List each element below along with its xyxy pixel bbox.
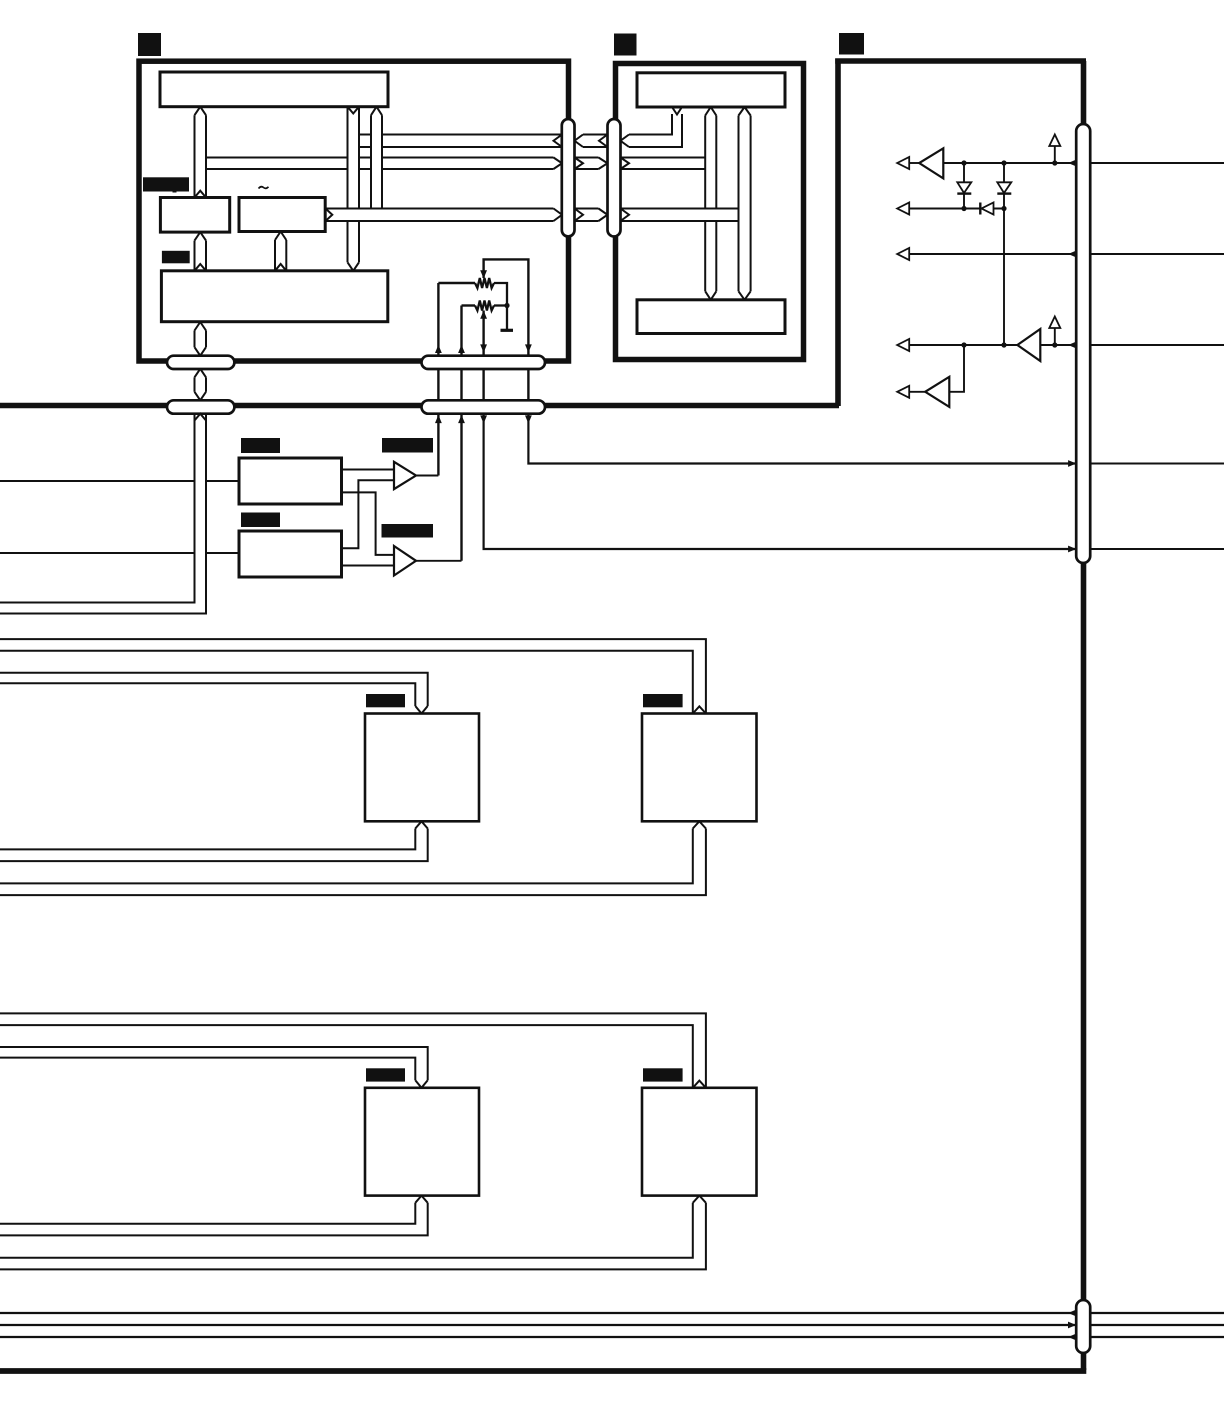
- register block 1: [160, 198, 229, 233]
- resistor R2 left lead and drop: [462, 304, 476, 306]
- wire w2: [909, 208, 1004, 210]
- label M3: [366, 1068, 405, 1081]
- arrow into circuit w3: [1068, 251, 1076, 258]
- label M4: [643, 1068, 683, 1081]
- ROM block rectangle: [161, 271, 387, 322]
- converter B output 2: [342, 565, 395, 567]
- buffer B triangle: [394, 546, 416, 576]
- arrow up into pill D line2: [458, 415, 465, 423]
- connector pill B: [422, 356, 546, 369]
- buffer U3 stub: [909, 391, 925, 393]
- inverter U1 input open arrow: [897, 157, 909, 169]
- group bus out pair 2 group2: [0, 1203, 706, 1270]
- board connector pill S: [1076, 1300, 1090, 1353]
- diode D3 bar: [979, 203, 981, 215]
- wire B segment between pills: [575, 158, 599, 170]
- arrow bottom line2: [1068, 1322, 1076, 1329]
- label above converter B: [241, 513, 280, 528]
- group bus in pair 1 group1: [0, 639, 706, 713]
- dot w1 power: [1052, 160, 1057, 165]
- converter A output 1: [342, 469, 395, 471]
- arrow into pill w6: [1068, 546, 1076, 553]
- IC1 pin label tab: [143, 177, 189, 191]
- bottom bus line 1: [0, 1312, 1224, 1314]
- bus B3 vertical (bus C to CPU): [371, 107, 382, 209]
- power arrow 1: [1049, 135, 1060, 147]
- control bus wire C from decoder: [326, 209, 554, 222]
- wire bus from RAM block down-left exit (lower-left board bus): [0, 414, 206, 614]
- diode D1 bar: [957, 192, 971, 194]
- wire w2 open arrow: [897, 203, 909, 215]
- bus B1 CPU to reg vertical arrow: [195, 107, 207, 198]
- IC2 top block rectangle: [637, 73, 785, 107]
- IC1 pin label comma mark: [173, 188, 177, 193]
- arrow down below pill D line4: [525, 415, 532, 423]
- arrow down below pill D line3: [480, 415, 487, 423]
- data bus wire B horizontal (to connector): [207, 158, 554, 170]
- bus B7 segment between connector pills: [195, 369, 207, 401]
- arrow up above pill B line2: [458, 345, 465, 353]
- line from buffer A output up to resistor R1: [437, 356, 439, 476]
- arrow down into pill B line4: [525, 344, 532, 352]
- power arrow 2: [1049, 317, 1060, 329]
- inverter U1 stub: [909, 162, 919, 164]
- label above buffer B: [382, 524, 434, 538]
- section tab A: [138, 33, 161, 56]
- stub right w3: [1090, 253, 1224, 255]
- arrow bottom line3: [1068, 1334, 1076, 1341]
- stub right w5: [1090, 463, 1224, 465]
- wire w3: [909, 253, 1076, 255]
- bus B5 vertical (ROM to reg2): [275, 232, 286, 271]
- bus B7 lower exit white redraw: [196, 415, 206, 601]
- dot w1 diode2: [1001, 160, 1006, 165]
- buffer U2 triangle: [1017, 329, 1040, 361]
- arrow into pill w5: [1068, 460, 1076, 467]
- dot w4 buffer5 branch: [961, 342, 966, 347]
- arrow into circuit w1: [1068, 160, 1076, 167]
- wire B tail in box2: [621, 158, 706, 170]
- diode D2 bar: [997, 192, 1011, 194]
- dot w4 link: [1001, 342, 1006, 347]
- bus B4 vertical (ROM to reg1): [195, 232, 207, 271]
- memory block M1: [365, 714, 479, 822]
- diode D3 triangle: [982, 203, 994, 215]
- label above converter A: [241, 438, 280, 453]
- buffer U3 triangle: [925, 377, 949, 407]
- wire A in box2 (from IC2 top block): [629, 114, 682, 147]
- connector pill C: [167, 400, 234, 413]
- feedback loop wire over R1: [484, 259, 529, 414]
- line from buffer B output up to resistor R2: [460, 356, 462, 561]
- junction dot R1/R2 right: [504, 303, 509, 308]
- connector pill 1 (box1 right): [562, 119, 575, 237]
- w2 to w4 vertical link: [1003, 209, 1005, 346]
- wire w3 open arrow: [897, 248, 909, 260]
- group bus in pair 1 group2: [0, 1013, 706, 1087]
- register block 2: [239, 198, 325, 232]
- CPU block rectangle: [160, 72, 388, 107]
- arrow up into pill D line1: [435, 415, 442, 423]
- group bus in pair 2 group1: [0, 673, 428, 706]
- section tab B: [614, 34, 637, 56]
- memory block M2: [642, 714, 757, 822]
- ground lead: [506, 306, 508, 330]
- memory block M3: [365, 1088, 479, 1196]
- IC2 bottom block rectangle: [637, 300, 785, 334]
- board connector pill R: [1076, 124, 1090, 563]
- IC2 internal bus V2: [739, 107, 751, 300]
- line pill to w5 drop: [528, 414, 1076, 464]
- group bus in pair 2 group2: [0, 1047, 428, 1080]
- main board top border: [835, 58, 1086, 64]
- input line to converter B: [0, 552, 239, 554]
- IC2 block outer box: [616, 64, 804, 360]
- converter block B: [239, 531, 342, 577]
- address bus wire A horizontal in box1: [360, 135, 562, 148]
- bus B6 ROM to connector pill: [195, 322, 207, 356]
- wire C tail in box2: [621, 209, 739, 222]
- bottom bus line 3: [0, 1336, 1224, 1338]
- stub right w4: [1090, 344, 1224, 346]
- dot w2 left: [961, 206, 966, 211]
- label above buffer A: [382, 438, 433, 453]
- label M2: [643, 694, 683, 707]
- connector pill D: [422, 400, 546, 413]
- bus B2 vertical (CPU to ROM): [348, 107, 360, 271]
- arrow up above pill B line1: [435, 345, 442, 353]
- wire w4 right: [1040, 344, 1076, 346]
- stub right w6: [1090, 548, 1224, 550]
- main board right section left border: [835, 59, 841, 407]
- sense line below R2: [482, 311, 484, 415]
- tilde mark above register 2: [259, 187, 269, 189]
- resistor R2 zigzag: [475, 301, 494, 311]
- resistor R2 right lead: [494, 304, 508, 306]
- arrow into R1 top: [480, 270, 487, 278]
- stub right w1: [1090, 162, 1224, 164]
- inverter U1 triangle: [919, 148, 943, 178]
- resistor R1 zigzag: [475, 278, 494, 288]
- dot w2 right: [1001, 206, 1006, 211]
- IC1 block outer box: [139, 61, 569, 361]
- main board bottom border: [0, 1368, 1086, 1374]
- arrow up into R2: [480, 311, 487, 319]
- buffer B output wire: [416, 560, 462, 562]
- line pill to w6 drop: [484, 414, 1077, 549]
- arrow down into pill B line3: [480, 344, 487, 352]
- ground bar: [501, 329, 514, 332]
- buffer U3 output link: [949, 345, 964, 392]
- group bus out pair 1 group2: [0, 1203, 428, 1236]
- converter A output 2 to buffer B: [342, 492, 395, 555]
- group bus out pair 2 group1: [0, 829, 706, 896]
- diode D2 triangle: [997, 182, 1011, 193]
- wire C segment between pills: [575, 209, 599, 222]
- dot w1 diode1: [961, 160, 966, 165]
- buffer A triangle: [394, 462, 416, 489]
- dot w4 power: [1052, 342, 1057, 347]
- bottom bus line 2: [0, 1324, 1224, 1326]
- IC1 second label tab: [162, 251, 190, 263]
- wire w4 left: [909, 344, 1017, 346]
- arrow bottom line1: [1068, 1310, 1076, 1317]
- wire A segment between pills: [583, 135, 608, 148]
- main board right border: [1081, 61, 1087, 1370]
- diode D1 lead: [963, 163, 965, 209]
- resistor R1 right lead: [494, 283, 507, 306]
- connector pill A: [167, 356, 234, 369]
- input line to converter A: [0, 480, 239, 482]
- resistor R1 left lead and drop: [438, 282, 475, 284]
- group bus out pair 1 group1: [0, 829, 428, 862]
- diode D1 triangle: [957, 182, 971, 193]
- buffer U3 input open arrow: [897, 386, 909, 398]
- converter B output 1 to buffer A: [342, 480, 395, 548]
- PCB board outline horizontal rail: [0, 403, 839, 409]
- arrow into circuit w4: [1068, 342, 1076, 349]
- connector pill 2 (box2 left): [608, 119, 621, 237]
- buffer A output wire: [416, 475, 438, 477]
- wire w4 open arrow: [897, 339, 909, 351]
- wire w1: [943, 162, 1076, 164]
- memory block M4: [642, 1088, 757, 1196]
- diode D2 lead: [1003, 163, 1005, 209]
- converter block A: [239, 458, 342, 504]
- section tab C: [839, 33, 864, 55]
- IC2 internal bus V1: [705, 107, 716, 300]
- label M1: [366, 694, 405, 707]
